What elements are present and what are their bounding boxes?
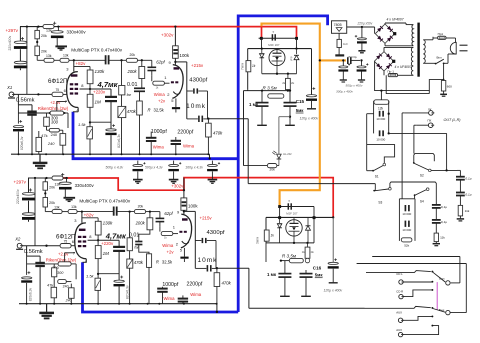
svg-text:+2v: +2v: [167, 250, 175, 255]
svg-text:1 мк: 1 мк: [267, 272, 277, 277]
svg-text:6Ф12П: 6Ф12П: [56, 233, 75, 240]
svg-text:47k: 47k: [41, 133, 47, 138]
svg-text:AUX: AUX: [396, 311, 402, 315]
svg-text:4300pf: 4300pf: [189, 78, 207, 84]
svg-text:MJF 207: MJF 207: [286, 212, 298, 216]
svg-text:Wima: Wima: [162, 243, 174, 248]
svg-text:470k: 470k: [222, 280, 232, 285]
svg-text:160µ x 4,3v: 160µ x 4,3v: [185, 165, 203, 169]
svg-text:+297v: +297v: [6, 28, 19, 33]
svg-text:Пр1: Пр1: [438, 32, 444, 36]
svg-text:4,7мк: 4,7мк: [105, 231, 127, 240]
svg-text:240: 240: [63, 285, 69, 289]
svg-text:+2v: +2v: [158, 98, 166, 103]
svg-text:500µ x 4,3v: 500µ x 4,3v: [145, 165, 163, 169]
svg-text:1М: 1М: [103, 251, 110, 256]
svg-text:5мк: 5мк: [315, 273, 324, 278]
svg-text:уср: уср: [289, 56, 293, 61]
svg-text:820x6,3v: 820x6,3v: [125, 285, 129, 299]
svg-text:820x6,3v: 820x6,3v: [28, 288, 32, 302]
svg-text:+297v: +297v: [14, 179, 27, 184]
svg-text:Wima: Wima: [190, 292, 202, 297]
svg-text:HL-202: HL-202: [283, 152, 292, 156]
svg-text:+2.5v: +2.5v: [58, 251, 69, 256]
svg-text:13k: 13k: [71, 205, 77, 209]
svg-text:+220v: +220v: [93, 90, 106, 95]
svg-text:20k: 20k: [49, 201, 55, 205]
svg-text:Wima: Wima: [164, 296, 176, 301]
svg-text:0.01: 0.01: [127, 82, 138, 88]
svg-text:2200pf: 2200pf: [177, 129, 193, 135]
svg-text:62pf: 62pf: [156, 60, 165, 65]
svg-text:470k: 470k: [127, 109, 137, 114]
svg-text:7805: 7805: [334, 23, 342, 27]
svg-text:+82v: +82v: [76, 61, 87, 66]
svg-text:0,1µ: 0,1µ: [441, 205, 447, 209]
svg-text:1k0: 1k0: [343, 42, 348, 46]
svg-text:240: 240: [51, 132, 58, 137]
svg-text:820x6,3v: 820x6,3v: [20, 136, 24, 150]
svg-text:Wima: Wima: [154, 92, 166, 97]
svg-text:100k: 100k: [188, 204, 198, 209]
svg-text:6Ф12П: 6Ф12П: [48, 78, 67, 85]
svg-text:1.5k: 1.5k: [78, 122, 87, 127]
svg-text:10 000: 10 000: [376, 137, 385, 141]
svg-text:120µ x 400v: 120µ x 400v: [324, 289, 343, 293]
svg-text:20k: 20k: [49, 185, 55, 189]
svg-text:S4: S4: [420, 199, 424, 203]
svg-text:820x6,3v: 820x6,3v: [117, 134, 121, 148]
svg-text:1000pf: 1000pf: [162, 282, 178, 288]
svg-text:ПК: ПК: [428, 119, 432, 123]
svg-text:220x400v: 220x400v: [8, 35, 12, 50]
svg-text:4300pf: 4300pf: [207, 230, 225, 236]
svg-text:MJF 207: MJF 207: [268, 43, 280, 47]
svg-text:C15: C15: [296, 99, 305, 104]
svg-text:20k: 20k: [130, 53, 136, 57]
svg-text:0,1µ: 0,1µ: [441, 220, 447, 224]
svg-text:Wima: Wima: [153, 145, 165, 150]
svg-text:75: 75: [56, 88, 60, 92]
svg-text:1k: 1k: [252, 64, 256, 68]
svg-text:220x400v: 220x400v: [16, 189, 20, 204]
svg-text:20k: 20k: [270, 168, 276, 172]
svg-text:+215v: +215v: [200, 216, 213, 221]
svg-text:11k: 11k: [465, 209, 470, 213]
svg-text:5мк: 5мк: [296, 108, 305, 113]
svg-text:10mk: 10mk: [198, 257, 218, 264]
svg-text:4,7мк: 4,7мк: [97, 80, 119, 89]
svg-text:+220v: +220v: [101, 241, 114, 246]
svg-text:300µ x 400v: 300µ x 400v: [336, 90, 353, 94]
svg-text:RikenOhm.(2w): RikenOhm.(2w): [38, 106, 69, 111]
svg-text:1000pf: 1000pf: [151, 129, 167, 135]
svg-text:MultiCap PTX 0.47x400v: MultiCap PTX 0.47x400v: [79, 199, 131, 204]
svg-text:0,1µ: 0,1µ: [465, 177, 471, 181]
svg-text:0,1µ: 0,1µ: [465, 193, 471, 197]
svg-text:600: 600: [447, 85, 452, 89]
svg-text:+302v: +302v: [171, 183, 184, 188]
svg-text:470k: 470k: [134, 260, 144, 265]
svg-text:13k: 13k: [63, 54, 69, 58]
svg-text:7мгн: 7мгн: [241, 63, 245, 70]
svg-text:470k: 470k: [213, 131, 223, 136]
svg-text:15000µ: 15000µ: [347, 55, 357, 59]
svg-text:Пр-1: Пр-1: [387, 69, 394, 73]
svg-text:10mk: 10mk: [186, 103, 206, 110]
svg-text:20k: 20k: [138, 204, 144, 208]
svg-text:fаr: fаr: [134, 245, 139, 249]
svg-text:20k: 20k: [41, 50, 47, 54]
svg-text:2Е: 2Е: [311, 250, 314, 254]
svg-text:1.5k: 1.5k: [86, 274, 95, 279]
svg-text:20k: 20k: [41, 34, 47, 38]
svg-text:10 000: 10 000: [376, 117, 385, 121]
svg-text:S2: S2: [420, 173, 424, 177]
svg-text:130k: 130k: [95, 69, 106, 74]
svg-text:2Е: 2Е: [291, 81, 294, 85]
svg-text:330x400v: 330x400v: [67, 30, 87, 35]
svg-text:R: R: [148, 108, 151, 113]
svg-text:1k: 1k: [271, 233, 275, 237]
svg-text:120µ x 400v: 120µ x 400v: [300, 117, 319, 121]
svg-text:AUX: AUX: [396, 328, 402, 332]
svg-text:4 x UF4007: 4 x UF4007: [387, 18, 404, 22]
svg-text:1М: 1М: [95, 100, 102, 105]
svg-text:CD R: CD R: [396, 289, 403, 293]
svg-text:OUT (L,R): OUT (L,R): [444, 118, 462, 122]
svg-text:62pf: 62pf: [164, 211, 173, 216]
svg-text:200k: 200k: [127, 69, 138, 74]
svg-text:47k: 47k: [47, 283, 53, 287]
svg-text:52k: 52k: [404, 243, 409, 247]
svg-text:Вкл: Вкл: [437, 56, 442, 60]
svg-text:R 3.5м: R 3.5м: [263, 85, 278, 90]
svg-text:12k: 12k: [378, 106, 384, 110]
svg-text:R: R: [156, 260, 159, 265]
svg-text:330x400v: 330x400v: [75, 183, 95, 188]
svg-text:fаr: fаr: [127, 93, 132, 97]
svg-text:Х2: Х2: [14, 236, 21, 241]
svg-text:240: 240: [65, 298, 72, 302]
svg-text:Х1: Х1: [6, 85, 12, 90]
svg-text:32,5k: 32,5k: [162, 260, 173, 265]
svg-text:32,5k: 32,5k: [154, 108, 165, 113]
svg-text:11k: 11k: [440, 236, 445, 240]
svg-text:Вых: Вых: [439, 308, 445, 312]
svg-text:+302v: +302v: [161, 33, 174, 38]
svg-text:10 000: 10 000: [402, 212, 411, 216]
svg-text:220µ x50v: 220µ x50v: [357, 22, 373, 26]
svg-text:300: 300: [57, 271, 64, 275]
svg-text:MultiCap PTX 0.47x400v: MultiCap PTX 0.47x400v: [71, 47, 123, 52]
svg-text:2Е: 2Е: [282, 81, 285, 85]
svg-text:2Е: 2Е: [302, 250, 305, 254]
svg-text:S1: S1: [375, 174, 379, 178]
svg-text:200k: 200k: [135, 220, 146, 225]
svg-text:13k: 13k: [54, 206, 60, 210]
svg-text:2200pf: 2200pf: [187, 282, 203, 288]
svg-text:240: 240: [47, 141, 55, 146]
svg-text:C16: C16: [313, 266, 322, 271]
svg-text:+215v: +215v: [191, 63, 204, 68]
svg-text:+2.5v: +2.5v: [50, 100, 61, 105]
svg-text:300: 300: [51, 119, 59, 124]
svg-text:10 000: 10 000: [402, 228, 411, 232]
svg-text:13k: 13k: [46, 54, 52, 58]
svg-text:Вых: Вых: [439, 277, 445, 281]
svg-text:500µ x 400v: 500µ x 400v: [346, 84, 363, 88]
svg-text:500µ x 4,3v: 500µ x 4,3v: [106, 165, 124, 169]
svg-text:+82v: +82v: [84, 213, 95, 218]
svg-text:S3: S3: [378, 200, 382, 204]
svg-text:4 x UF4007: 4 x UF4007: [395, 65, 412, 69]
svg-text:130k: 130k: [103, 221, 114, 226]
svg-text:3мгн: 3мгн: [256, 237, 260, 244]
svg-text:Wima: Wima: [183, 143, 195, 148]
svg-text:100k: 100k: [180, 53, 190, 58]
